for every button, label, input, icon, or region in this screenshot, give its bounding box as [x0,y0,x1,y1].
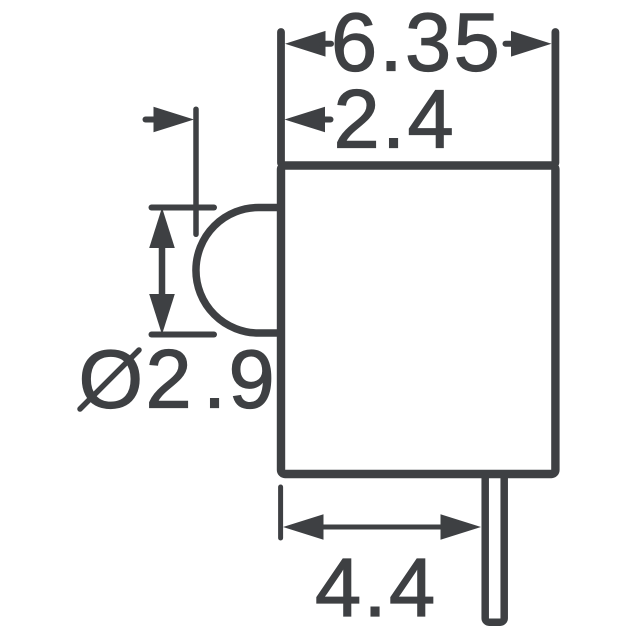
dim 6.35 right arrow [506,31,552,57]
dia 2.9 up arrow [149,208,175,249]
svg-text:4.4: 4.4 [315,541,438,634]
dome apex extension line [193,109,199,234]
dia 2.9 down arrow [149,294,175,335]
dim 4.4 left arrow [283,514,324,540]
dia 2.9 connecting line [159,245,166,297]
dim 2.4 outer right-pointing arrow [146,107,195,133]
lead pin [485,474,504,622]
dim 4.4 left extension line [278,487,283,538]
dome bottom tick [152,332,215,338]
dim 4.4 right arrow [441,514,482,540]
dim 6.35 left arrow [285,31,331,57]
svg-text:2.4: 2.4 [334,73,457,166]
dim 4.4 line [322,525,443,530]
left extension line [277,32,285,163]
LED dome [196,208,281,334]
right extension line [552,32,560,163]
dome top tick [152,205,215,211]
body outline [281,166,555,475]
dim 2.4 outer left-pointing arrow [285,107,331,133]
